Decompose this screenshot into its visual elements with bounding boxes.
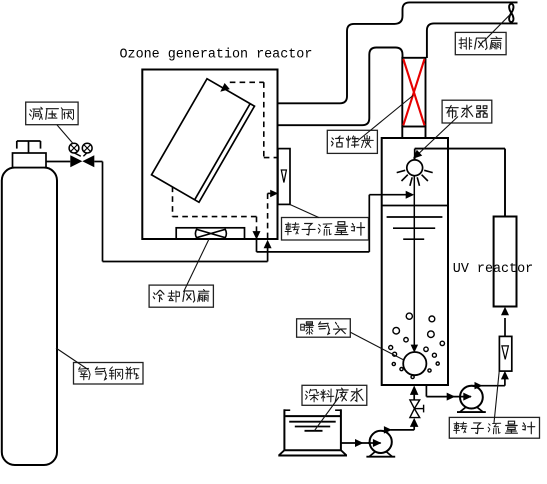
svg-text:UV reactor: UV reactor [453,262,533,277]
svg-text:Ozone generation reactor: Ozone generation reactor [120,47,313,62]
